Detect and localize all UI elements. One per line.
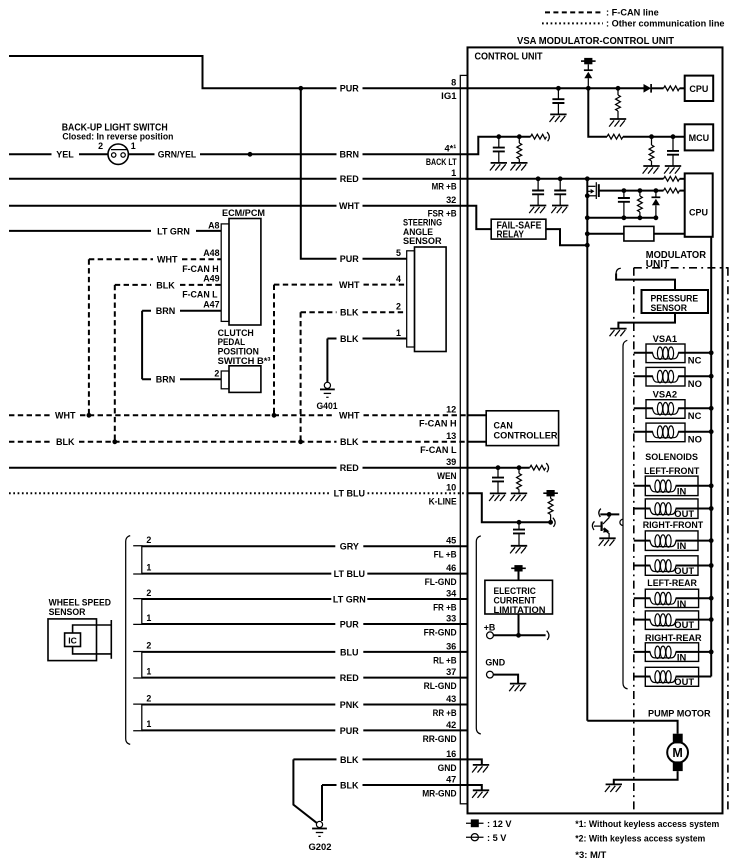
node junction PUR/steering-sensor feed	[298, 86, 303, 91]
node	[709, 374, 714, 379]
solenoid collector line from CPU	[710, 237, 712, 677]
node WEN res	[517, 465, 522, 470]
wire steering BLK vertical	[300, 312, 302, 442]
svg-text:WHT: WHT	[339, 411, 360, 421]
wire to ground G401	[326, 339, 328, 383]
svg-text:4: 4	[396, 274, 401, 284]
capacitor	[518, 522, 520, 529]
wire WHT F-CAN H to ECM pin A48	[89, 258, 221, 260]
back-up light switch	[108, 144, 128, 164]
wire IG1 internal	[468, 87, 644, 89]
wire K-LINE internal	[468, 493, 551, 522]
svg-text:46: 46	[446, 563, 456, 573]
wire F-CAN H internal	[468, 414, 487, 416]
node K-LINE cap	[517, 520, 522, 525]
svg-text:8: 8	[451, 78, 456, 88]
svg-text:A49: A49	[203, 274, 219, 284]
svg-text:37: 37	[446, 667, 456, 677]
wheel speed sensor pair bracket	[133, 704, 142, 731]
node MR+B cap2	[558, 176, 563, 181]
legend 5V symbol	[466, 836, 484, 838]
wire LT BLU K-LINE to pin 10	[9, 492, 468, 494]
ground	[551, 206, 568, 214]
wire to +B node	[518, 614, 520, 635]
svg-text:WHT: WHT	[157, 255, 178, 265]
resistor WEN series	[530, 465, 546, 470]
svg-text:Closed: In reverse position: Closed: In reverse position	[62, 131, 173, 141]
svg-text:F-CAN L: F-CAN L	[420, 445, 457, 455]
svg-text:LT GRN: LT GRN	[157, 226, 190, 236]
svg-text:F-CAN H: F-CAN H	[419, 419, 457, 429]
svg-text:GRN/YEL: GRN/YEL	[158, 150, 197, 160]
svg-text:CPU: CPU	[689, 207, 708, 217]
svg-text:BLK: BLK	[340, 437, 359, 447]
svg-text:CAN: CAN	[494, 420, 513, 430]
CPU box (lower)	[685, 173, 713, 236]
svg-text:A47: A47	[203, 300, 219, 310]
svg-text:1: 1	[146, 613, 151, 623]
svg-text:CONTROLLER: CONTROLLER	[494, 430, 559, 440]
svg-text:SENSOR: SENSOR	[49, 607, 86, 617]
svg-text:1: 1	[146, 562, 151, 572]
wheel speed sensor pair bracket	[133, 599, 142, 625]
solenoid right-front IN	[645, 531, 698, 551]
bottom rail of network	[587, 217, 656, 219]
wire LT GRN to ECM pin A8	[9, 230, 221, 232]
resistor MCU feed	[607, 134, 623, 139]
solenoid right-rear IN	[645, 643, 698, 662]
node F-CAN H / steering branch	[272, 413, 277, 418]
capacitor to ground	[554, 191, 566, 195]
wire BLU to pin 36 RL +B	[142, 651, 468, 653]
wire FSR+B internal	[468, 206, 492, 229]
resistor to CPU pin	[664, 176, 680, 181]
svg-text:RED: RED	[340, 673, 360, 683]
wire WHT dashed to steering sensor pin 4	[274, 284, 407, 286]
wire relay output to main rail	[546, 229, 587, 245]
svg-text:LT BLU: LT BLU	[334, 569, 365, 579]
svg-text:OUT: OUT	[674, 565, 694, 576]
svg-text:OUT: OUT	[674, 619, 694, 630]
svg-text:16: 16	[446, 749, 456, 759]
wire BRN to clutch switch pin 2	[142, 378, 221, 380]
svg-text:32: 32	[446, 195, 456, 205]
wheel speed sensor group bracket	[126, 536, 131, 745]
svg-text:12: 12	[446, 405, 456, 415]
transistor Q2 (pump driver)	[599, 509, 601, 517]
svg-text:SENSOR: SENSOR	[651, 303, 688, 313]
svg-text:VSA MODULATOR-CONTROL UNIT: VSA MODULATOR-CONTROL UNIT	[517, 36, 675, 47]
wire PUR to pin 42 RR-GND	[142, 729, 468, 731]
svg-text:*2: With keyless access system: *2: With keyless access system	[575, 833, 705, 843]
svg-text:NC: NC	[688, 354, 702, 365]
node	[709, 617, 714, 622]
wire RED to pin 1 MR+B	[9, 178, 468, 180]
svg-text:RL +B: RL +B	[433, 655, 457, 665]
wire pressure sensor supply with hook	[616, 268, 621, 274]
node back-lt resistor	[517, 134, 522, 139]
wire steering WHT vertical	[273, 285, 275, 416]
resistor back-lt series	[531, 134, 547, 139]
svg-text:PNK: PNK	[340, 700, 360, 710]
node MR+B main branch	[585, 176, 590, 181]
svg-text:LIMITATION: LIMITATION	[494, 605, 546, 615]
wire GND to ground	[493, 675, 518, 684]
wire pump motor to ground	[614, 771, 678, 784]
svg-text:MCU: MCU	[689, 133, 710, 143]
ground	[510, 493, 527, 501]
node	[709, 506, 714, 511]
node out zener	[654, 188, 659, 193]
wire BLK F-CAN L to ECM pin A49	[115, 284, 221, 286]
legend F-CAN line sample	[545, 11, 603, 13]
svg-text:BLK: BLK	[156, 280, 175, 290]
node	[709, 483, 714, 488]
svg-text:2: 2	[146, 535, 151, 545]
node WEN cap	[496, 465, 501, 470]
svg-text:42: 42	[446, 720, 456, 730]
wire PUR to pin 8 IG1 (battery feed)	[9, 56, 468, 88]
svg-text:RIGHT-REAR: RIGHT-REAR	[645, 633, 702, 643]
svg-text:1: 1	[451, 168, 456, 178]
svg-text:SOLENOIDS: SOLENOIDS	[645, 452, 698, 462]
wire WHT F-CAN H bus to pin 12	[9, 414, 468, 416]
svg-text:NO: NO	[688, 434, 702, 445]
solenoid right-rear OUT	[645, 667, 698, 686]
svg-text:A8: A8	[208, 220, 219, 230]
wire main rail to pump motor	[587, 721, 677, 734]
FET Q1 (high side switch)	[587, 185, 595, 187]
svg-text:OUT: OUT	[674, 508, 694, 519]
svg-text:FR-GND: FR-GND	[424, 627, 458, 637]
wheel speed sensor body	[48, 619, 97, 661]
node +B	[516, 633, 521, 638]
node	[709, 596, 714, 601]
+B terminal circle	[487, 632, 494, 639]
node MCU resistor	[649, 134, 654, 139]
svg-text:G202: G202	[309, 842, 332, 852]
svg-text:A48: A48	[203, 248, 219, 258]
wire F-CAN L internal	[468, 441, 487, 443]
capacitor	[623, 191, 625, 198]
capacitor to ground	[498, 137, 500, 148]
svg-text:: 12 V: : 12 V	[487, 819, 512, 829]
svg-text:47: 47	[446, 774, 456, 784]
wire MR+B internal	[468, 178, 664, 180]
svg-text:SENSOR: SENSOR	[403, 236, 442, 246]
svg-text:BLK: BLK	[340, 334, 359, 344]
svg-text:RR +B: RR +B	[433, 708, 457, 718]
svg-text:5: 5	[396, 248, 401, 258]
solenoid left-front OUT	[645, 499, 698, 519]
svg-text:2: 2	[396, 302, 401, 312]
node MCU cap	[671, 134, 676, 139]
VSA modulator-control unit box	[468, 47, 723, 813]
svg-text:MR +B: MR +B	[432, 181, 457, 191]
wire BLK dashed to steering sensor pin 2	[301, 311, 407, 313]
modulator unit boundary right	[727, 268, 729, 810]
CAN CONTROLLER box	[486, 411, 558, 446]
hook (continuation)	[547, 132, 549, 141]
connector strip of control unit	[460, 75, 467, 803]
diode on IG1 row	[644, 84, 652, 93]
wire WEN internal	[468, 467, 530, 469]
ground	[489, 493, 506, 501]
wire BLK GND vertical + diagonal to G202	[293, 759, 316, 822]
resistor to CPU	[664, 86, 680, 91]
svg-text:BLU: BLU	[340, 647, 359, 657]
ground	[472, 790, 489, 798]
solenoid right-front OUT	[645, 556, 698, 576]
wire YEL	[9, 153, 52, 155]
wire BRN to ECM pin A47	[142, 310, 221, 312]
svg-text:10: 10	[446, 483, 456, 493]
svg-text:ECM/PCM: ECM/PCM	[222, 208, 265, 218]
wire F-CAN L vertical	[114, 285, 116, 442]
svg-text:2: 2	[146, 641, 151, 651]
solenoid VSA1 NO	[646, 367, 685, 386]
solenoid VSA2 NC	[646, 400, 685, 419]
wire RED WEN to pin 39	[9, 467, 468, 469]
svg-text:2: 2	[98, 141, 103, 151]
svg-text:UNIT: UNIT	[646, 259, 669, 270]
svg-text:IN: IN	[677, 540, 687, 551]
resistor	[518, 468, 520, 474]
svg-text:LT GRN: LT GRN	[333, 594, 366, 604]
wheel speed sensor terminal bar	[110, 620, 112, 659]
node F-CAN H / ECM branch	[87, 413, 92, 418]
svg-text:MR-GND: MR-GND	[422, 788, 457, 798]
svg-text:IN: IN	[677, 485, 687, 496]
legend 12V symbol	[466, 822, 484, 824]
svg-text:IN: IN	[677, 652, 687, 663]
svg-text:WHT: WHT	[339, 201, 360, 211]
diode to supply	[584, 70, 593, 78]
ground	[599, 538, 616, 546]
node IG1 cap	[556, 86, 561, 91]
svg-text:VSA1: VSA1	[653, 333, 678, 344]
svg-text:WEN: WEN	[437, 471, 457, 481]
12V supply tap	[581, 58, 596, 64]
wire RED to pin 37 RL-GND	[142, 677, 468, 679]
ground	[643, 166, 660, 174]
ECM/PCM box	[229, 219, 261, 326]
svg-text:2: 2	[146, 693, 151, 703]
wire F-CAN H vertical	[88, 259, 90, 415]
svg-text:SWITCH B*³: SWITCH B*³	[218, 356, 271, 366]
wire BLK to steering sensor pin 1	[327, 338, 406, 340]
steering angle sensor box	[415, 247, 447, 352]
ground	[610, 329, 627, 337]
node	[709, 429, 714, 434]
12V supply tap	[543, 490, 558, 496]
wire BACK LT internal	[468, 137, 531, 155]
clutch switch connector strip	[221, 371, 229, 389]
svg-text:43: 43	[446, 694, 456, 704]
modulator unit boundary left	[633, 268, 635, 814]
zener diode	[655, 191, 657, 198]
capacitor on IG1	[557, 88, 559, 99]
svg-text:FL-GND: FL-GND	[425, 577, 458, 587]
capacitor	[497, 468, 499, 478]
steering angle sensor connector strip	[407, 251, 415, 347]
node	[709, 406, 714, 411]
wheel speed group bracket (inside unit)	[476, 536, 481, 734]
svg-text:VSA2: VSA2	[653, 388, 678, 399]
capacitor to ground	[532, 191, 544, 195]
wire BLK MR-GND vertical to G202	[321, 785, 323, 821]
wire WHT to pin 32 FSR+B	[9, 205, 468, 207]
wire FET output	[599, 190, 664, 192]
node	[709, 538, 714, 543]
ground	[609, 119, 626, 127]
svg-text:13: 13	[446, 431, 456, 441]
svg-text:PUR: PUR	[340, 619, 360, 629]
svg-text:F-CAN L: F-CAN L	[182, 290, 218, 300]
modulator unit boundary top	[634, 267, 729, 269]
wire IG1 to MCU	[588, 88, 607, 136]
svg-text:: Other communication line: : Other communication line	[606, 19, 725, 30]
wire LT BLU to pin 46 FL-GND	[142, 573, 468, 575]
wire to sense resistor block	[587, 233, 624, 235]
ground	[472, 765, 489, 773]
node IG1 branch	[586, 86, 591, 91]
svg-text:LT BLU: LT BLU	[334, 489, 365, 499]
svg-text:: 5 V: : 5 V	[487, 833, 507, 843]
svg-text:IG1: IG1	[441, 91, 456, 101]
node out res	[638, 188, 643, 193]
wire LT GRN to pin 34 FR +B	[142, 598, 468, 600]
svg-text:M: M	[672, 746, 682, 760]
svg-text:PUR: PUR	[340, 726, 360, 736]
capacitor to ground	[672, 137, 674, 151]
svg-text:33: 33	[446, 613, 456, 623]
svg-text:BRN: BRN	[340, 150, 360, 160]
node F-CAN L / steering branch	[298, 439, 303, 444]
wire +B	[493, 634, 545, 636]
wire BLK F-CAN L bus to pin 13	[9, 441, 468, 443]
svg-text:F-CAN H: F-CAN H	[182, 264, 218, 274]
svg-text:1: 1	[396, 328, 401, 338]
svg-text:+B: +B	[484, 622, 496, 632]
resistor	[639, 191, 641, 196]
svg-text:2: 2	[146, 588, 151, 598]
svg-text:RIGHT-FRONT: RIGHT-FRONT	[643, 520, 704, 530]
ELECTRIC CURRENT LIMITATION box	[485, 580, 553, 614]
svg-text:BRN: BRN	[156, 306, 176, 316]
ground	[490, 163, 507, 171]
svg-text:CONTROL UNIT: CONTROL UNIT	[475, 52, 543, 63]
resistor to ground	[651, 137, 653, 145]
wire GRY to pin 45 FL +B	[142, 545, 468, 547]
svg-text:GRY: GRY	[340, 542, 359, 552]
svg-text:BLK: BLK	[340, 780, 359, 790]
wire PNK to pin 43 RR +B	[142, 704, 468, 706]
svg-text:FL +B: FL +B	[434, 550, 457, 560]
svg-text:BACK LT: BACK LT	[426, 157, 457, 167]
svg-text:FR +B: FR +B	[433, 602, 457, 612]
wheel speed sensor pair bracket	[133, 546, 142, 574]
node relay/main rail	[585, 243, 590, 248]
svg-text:CPU: CPU	[689, 84, 708, 94]
svg-text:RED: RED	[340, 174, 360, 184]
svg-text:LEFT-REAR: LEFT-REAR	[647, 578, 697, 588]
hook	[547, 631, 549, 640]
node on GRN/YEL wire	[248, 152, 253, 157]
svg-text:BRN: BRN	[156, 375, 176, 385]
resistor to CPU pin 2	[664, 188, 680, 193]
wire GND pin 16 internal	[468, 759, 482, 765]
ground	[664, 166, 681, 174]
svg-text:BLK: BLK	[56, 437, 75, 447]
svg-text:GND: GND	[485, 657, 505, 667]
svg-text:K-LINE: K-LINE	[429, 497, 457, 507]
wire BLK to pin 16 GND	[293, 758, 467, 760]
svg-text:BLK: BLK	[340, 755, 359, 765]
node K-LINE pullup	[548, 520, 553, 525]
legend other communication line sample	[542, 22, 603, 24]
wheel speed sensor wires	[73, 625, 112, 654]
IC block	[65, 633, 81, 647]
svg-text:IC: IC	[68, 635, 77, 645]
solenoid VSA1 NC	[646, 344, 685, 363]
solenoid feed line with hooks	[623, 340, 628, 689]
ground	[529, 206, 546, 214]
svg-text:45: 45	[446, 536, 456, 546]
hook	[546, 463, 548, 472]
wire MR-GND pin 47 internal	[468, 785, 482, 790]
pump motor M1	[673, 734, 683, 744]
node back-lt cap	[496, 134, 501, 139]
node sense branch	[585, 231, 590, 236]
12V supply tap	[511, 565, 526, 571]
node	[709, 650, 714, 655]
solenoid left-rear OUT	[645, 611, 698, 630]
wheel speed sensor pair bracket	[133, 652, 142, 679]
svg-text:*1: Without keyless access sys: *1: Without keyless access system	[575, 819, 719, 829]
svg-text:NO: NO	[688, 378, 702, 389]
svg-text:GND: GND	[438, 763, 458, 773]
wire PUR to pin 33 FR-GND	[142, 623, 468, 625]
CPU box (top)	[685, 76, 714, 101]
resistor block	[624, 226, 654, 241]
svg-text:: F-CAN line: : F-CAN line	[606, 8, 659, 19]
svg-text:RL-GND: RL-GND	[424, 681, 458, 691]
node out cap	[622, 188, 627, 193]
svg-text:*3: M/T: *3: M/T	[575, 850, 606, 860]
resistor to ground	[518, 137, 520, 143]
node	[709, 563, 714, 568]
solenoid VSA2 NO	[646, 423, 685, 442]
ground	[605, 784, 622, 792]
svg-text:36: 36	[446, 641, 456, 651]
svg-text:1: 1	[146, 666, 151, 676]
svg-text:IN: IN	[677, 598, 687, 609]
svg-text:PUR: PUR	[340, 84, 360, 94]
wire BRN vertical	[141, 311, 143, 379]
solenoid left-front IN	[645, 476, 698, 496]
svg-text:NC: NC	[688, 410, 702, 421]
svg-text:39: 39	[446, 457, 456, 467]
svg-text:WHT: WHT	[55, 411, 76, 421]
svg-text:OUT: OUT	[674, 676, 694, 687]
svg-text:2: 2	[214, 368, 219, 378]
node	[709, 350, 714, 355]
GND terminal circle	[487, 671, 494, 678]
PRESSURE SENSOR box	[642, 290, 709, 313]
svg-text:RELAY: RELAY	[497, 230, 525, 241]
svg-text:1: 1	[146, 719, 151, 729]
